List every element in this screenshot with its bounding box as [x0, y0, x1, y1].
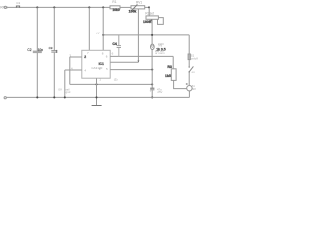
- fuse S1 body: [188, 54, 190, 60]
- resistor R3: [171, 69, 176, 81]
- wire LED line lower: [151, 70, 153, 88]
- wire x70 down: [69, 57, 71, 84]
- svg-text:B1: B1: [192, 84, 196, 88]
- node junction rail x152: [151, 34, 153, 36]
- svg-text:C3: C3: [49, 46, 53, 50]
- wire top rail right segment: [145, 6, 150, 8]
- svg-text:(5): (5): [114, 78, 118, 82]
- wire R2 wiper drop: [151, 19, 153, 44]
- wire C3 to 0V: [53, 53, 55, 98]
- R2 wiper arrow tick: [150, 19, 152, 21]
- node junction 0V x54: [53, 96, 55, 98]
- svg-text:2: 2: [84, 55, 86, 59]
- battery plus sign: [186, 83, 188, 85]
- wire pin7 drop x89: [88, 7, 90, 50]
- wire below switch: [188, 72, 190, 85]
- wire pin y69.6 to LED line: [110, 69, 152, 71]
- svg-text:CA3130: CA3130: [91, 66, 102, 70]
- wire between R1 and RV1: [120, 6, 131, 8]
- node junction x152 y84.4: [151, 83, 153, 85]
- svg-text:10n: 10n: [38, 48, 44, 52]
- capacitor C4 x118.8: [118, 35, 120, 46]
- wire pin y62.4 to wiper: [110, 61, 138, 63]
- svg-text:25V: 25V: [157, 90, 162, 94]
- node junction top x103: [102, 6, 104, 8]
- potentiometer RV1 slash: [132, 4, 137, 10]
- node junction 0V x65: [64, 96, 66, 98]
- svg-text:1k5: 1k5: [165, 74, 171, 78]
- wire y84.4 horizontal: [70, 83, 152, 85]
- resistor R1: [110, 6, 120, 9]
- wire pin8 drop x103: [102, 7, 104, 50]
- svg-text:gnd: gnd: [66, 90, 71, 94]
- wire 0V rail: [6, 96, 189, 98]
- wire R3 bottom lead: [174, 80, 187, 88]
- svg-text:C1: C1: [16, 1, 20, 5]
- wire x65 down to 0V: [64, 70, 66, 97]
- wire pin2 from IC left: [70, 56, 82, 58]
- svg-text:R1: R1: [112, 0, 116, 4]
- preset R2: [146, 16, 158, 19]
- wire R2 right terminal loop: [158, 18, 164, 25]
- wire RV1 wiper vertical: [137, 9, 139, 62]
- wire pin4 from IC left: [65, 69, 82, 71]
- node junction rail x103: [102, 34, 104, 36]
- svg-text:R3: R3: [167, 65, 172, 69]
- wire R3 top lead: [172, 56, 174, 68]
- switch S1 bottom terminal: [188, 71, 190, 73]
- wire top rail left segment: [7, 6, 111, 8]
- battery B1 cell circle: [187, 86, 192, 91]
- capacitor C5 plates: [150, 87, 154, 89]
- capacitor C1: [16, 6, 19, 8]
- svg-text:on: on: [192, 70, 196, 74]
- wire LED cathode lead: [151, 49, 153, 69]
- wire positive rail horizontal y34.6: [103, 34, 189, 36]
- svg-text:C4: C4: [112, 42, 117, 46]
- capacitor C3 on x54: [53, 7, 55, 50]
- svg-text:RV1: RV1: [136, 0, 142, 4]
- node junction x152 y69.6: [151, 69, 153, 71]
- svg-text:C2: C2: [27, 48, 31, 52]
- node junction x96.5 y84.4: [96, 83, 98, 85]
- potentiometer RV1: [131, 6, 145, 9]
- ground bar: [92, 105, 102, 107]
- node junction top x89: [88, 6, 90, 8]
- wire C2 to 0V: [36, 53, 38, 97]
- LED LED1: [151, 44, 155, 49]
- node junction top x37: [36, 6, 38, 8]
- wire drop to R2: [148, 7, 150, 16]
- op-amp IC1 box: [82, 50, 110, 78]
- switch S1 lever: [189, 66, 193, 71]
- svg-text:+V: +V: [96, 31, 100, 35]
- wiper arrowhead: [138, 61, 140, 63]
- node junction top x54: [53, 6, 55, 8]
- svg-text:or norm: or norm: [155, 51, 165, 55]
- wire right branch down from rail: [188, 35, 190, 66]
- wire pin6 output y56.4: [110, 55, 173, 57]
- label C3 plus bar: [56, 50, 58, 53]
- wire battery to 0V: [188, 91, 190, 98]
- node junction top right corner: [148, 6, 150, 8]
- svg-text:on/off: on/off: [191, 57, 198, 61]
- capacitor C2 on x37: [36, 7, 38, 50]
- svg-text:set: set: [150, 11, 154, 15]
- svg-text:100k: 100k: [129, 10, 137, 14]
- svg-text:10k0: 10k0: [112, 8, 120, 12]
- switch S1 top terminal: [188, 66, 190, 68]
- wire IC bottom pin x96.5: [96, 78, 98, 105]
- node junction x152 y97.4: [151, 96, 153, 98]
- wire C5 to 0V: [151, 90, 153, 97]
- node junction 0V x37: [36, 96, 38, 98]
- node junction 0V x96.5: [95, 96, 97, 98]
- node 0V terminal: [4, 97, 6, 99]
- svg-text:0V: 0V: [58, 88, 62, 92]
- node RF input terminal: [4, 6, 6, 8]
